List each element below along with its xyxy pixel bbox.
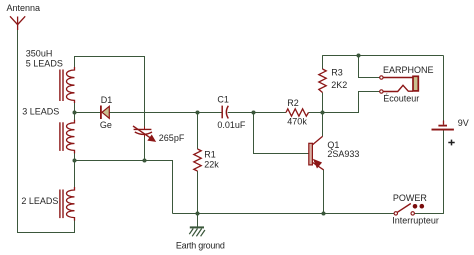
svg-text:3 LEADS: 3 LEADS bbox=[22, 107, 59, 117]
svg-text:C1: C1 bbox=[217, 95, 229, 105]
svg-text:265pF: 265pF bbox=[159, 133, 185, 143]
svg-text:9V: 9V bbox=[458, 118, 469, 128]
svg-text:D1: D1 bbox=[101, 95, 113, 105]
svg-text:0.01uF: 0.01uF bbox=[217, 120, 246, 130]
svg-text:Earth ground: Earth ground bbox=[176, 240, 225, 250]
svg-text:R2: R2 bbox=[287, 98, 299, 108]
svg-text:R3: R3 bbox=[331, 68, 343, 78]
svg-text:Ge: Ge bbox=[100, 120, 112, 130]
svg-text:Écouteur: Écouteur bbox=[383, 93, 419, 103]
svg-text:R1: R1 bbox=[204, 150, 216, 160]
svg-text:Interrupteur: Interrupteur bbox=[392, 216, 439, 226]
svg-text:470k: 470k bbox=[287, 117, 307, 127]
svg-text:2 LEADS: 2 LEADS bbox=[21, 196, 58, 206]
svg-text:350uH: 350uH bbox=[26, 49, 53, 59]
svg-text:2SA933: 2SA933 bbox=[327, 149, 359, 159]
svg-text:5 LEADS: 5 LEADS bbox=[26, 58, 63, 68]
svg-text:POWER: POWER bbox=[393, 193, 428, 203]
svg-text:EARPHONE: EARPHONE bbox=[383, 65, 434, 75]
svg-text:22k: 22k bbox=[204, 159, 219, 169]
svg-text:Antenna: Antenna bbox=[7, 3, 41, 13]
svg-text:2K2: 2K2 bbox=[331, 80, 347, 90]
